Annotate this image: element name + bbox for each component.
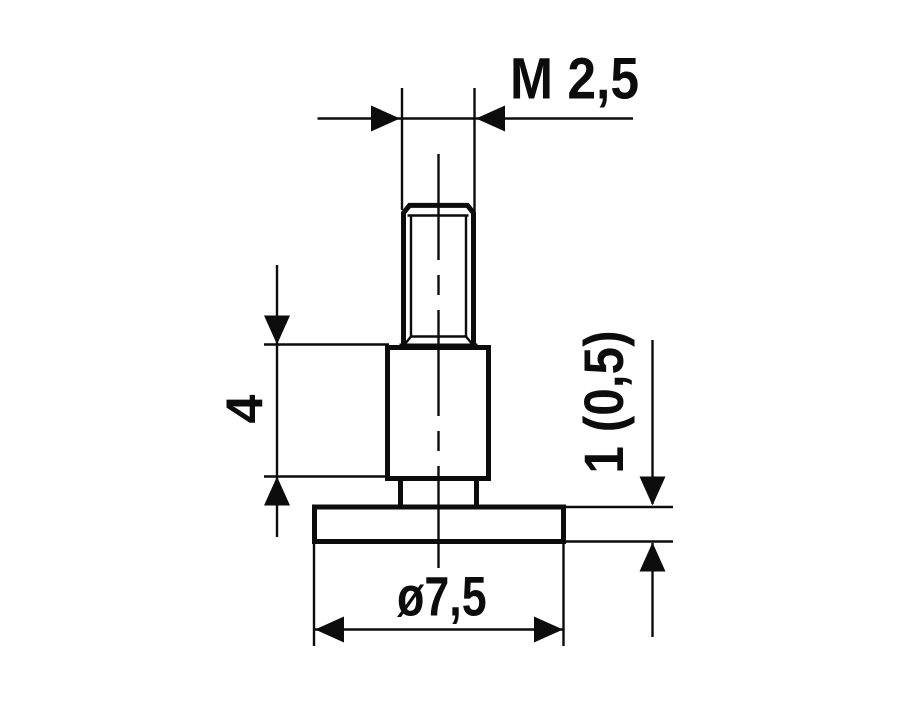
dimension 4 : arrowheads (264, 316, 290, 506)
centerline (vertical dash-dot axis) (437, 154, 439, 568)
dimension M 2,5 : arrowheads (371, 106, 505, 132)
dimension line (318, 117, 634, 119)
svg-text:ø7,5: ø7,5 (397, 565, 487, 628)
disc base (thick) (315, 507, 564, 542)
thread core lines (thin) (405, 216, 473, 345)
dimension line (315, 628, 563, 630)
svg-text:M 2,5: M 2,5 (510, 46, 639, 111)
dimension o7,5 : arrowheads (315, 617, 563, 643)
threaded stud M2,5 outline (thick) (402, 205, 475, 346)
cylindrical body (thick) (388, 348, 489, 479)
svg-text:4: 4 (217, 394, 275, 423)
neck between body and disc (thick) (401, 479, 477, 508)
dimension 4 : dimension line (264, 265, 389, 537)
dimension 1 (0,5) : upper dimension line with down arrow (651, 340, 653, 637)
disc thickness extension lines (thin, to the right) (566, 507, 673, 542)
dimension 1 (0,5) : arrowheads (640, 477, 666, 572)
extension lines (264, 343, 389, 345)
svg-text:1 (0,5): 1 (0,5) (573, 330, 635, 473)
dimension M 2,5 : extension lines (318, 88, 634, 218)
dimension o7,5 : extension lines below disc (314, 544, 564, 646)
